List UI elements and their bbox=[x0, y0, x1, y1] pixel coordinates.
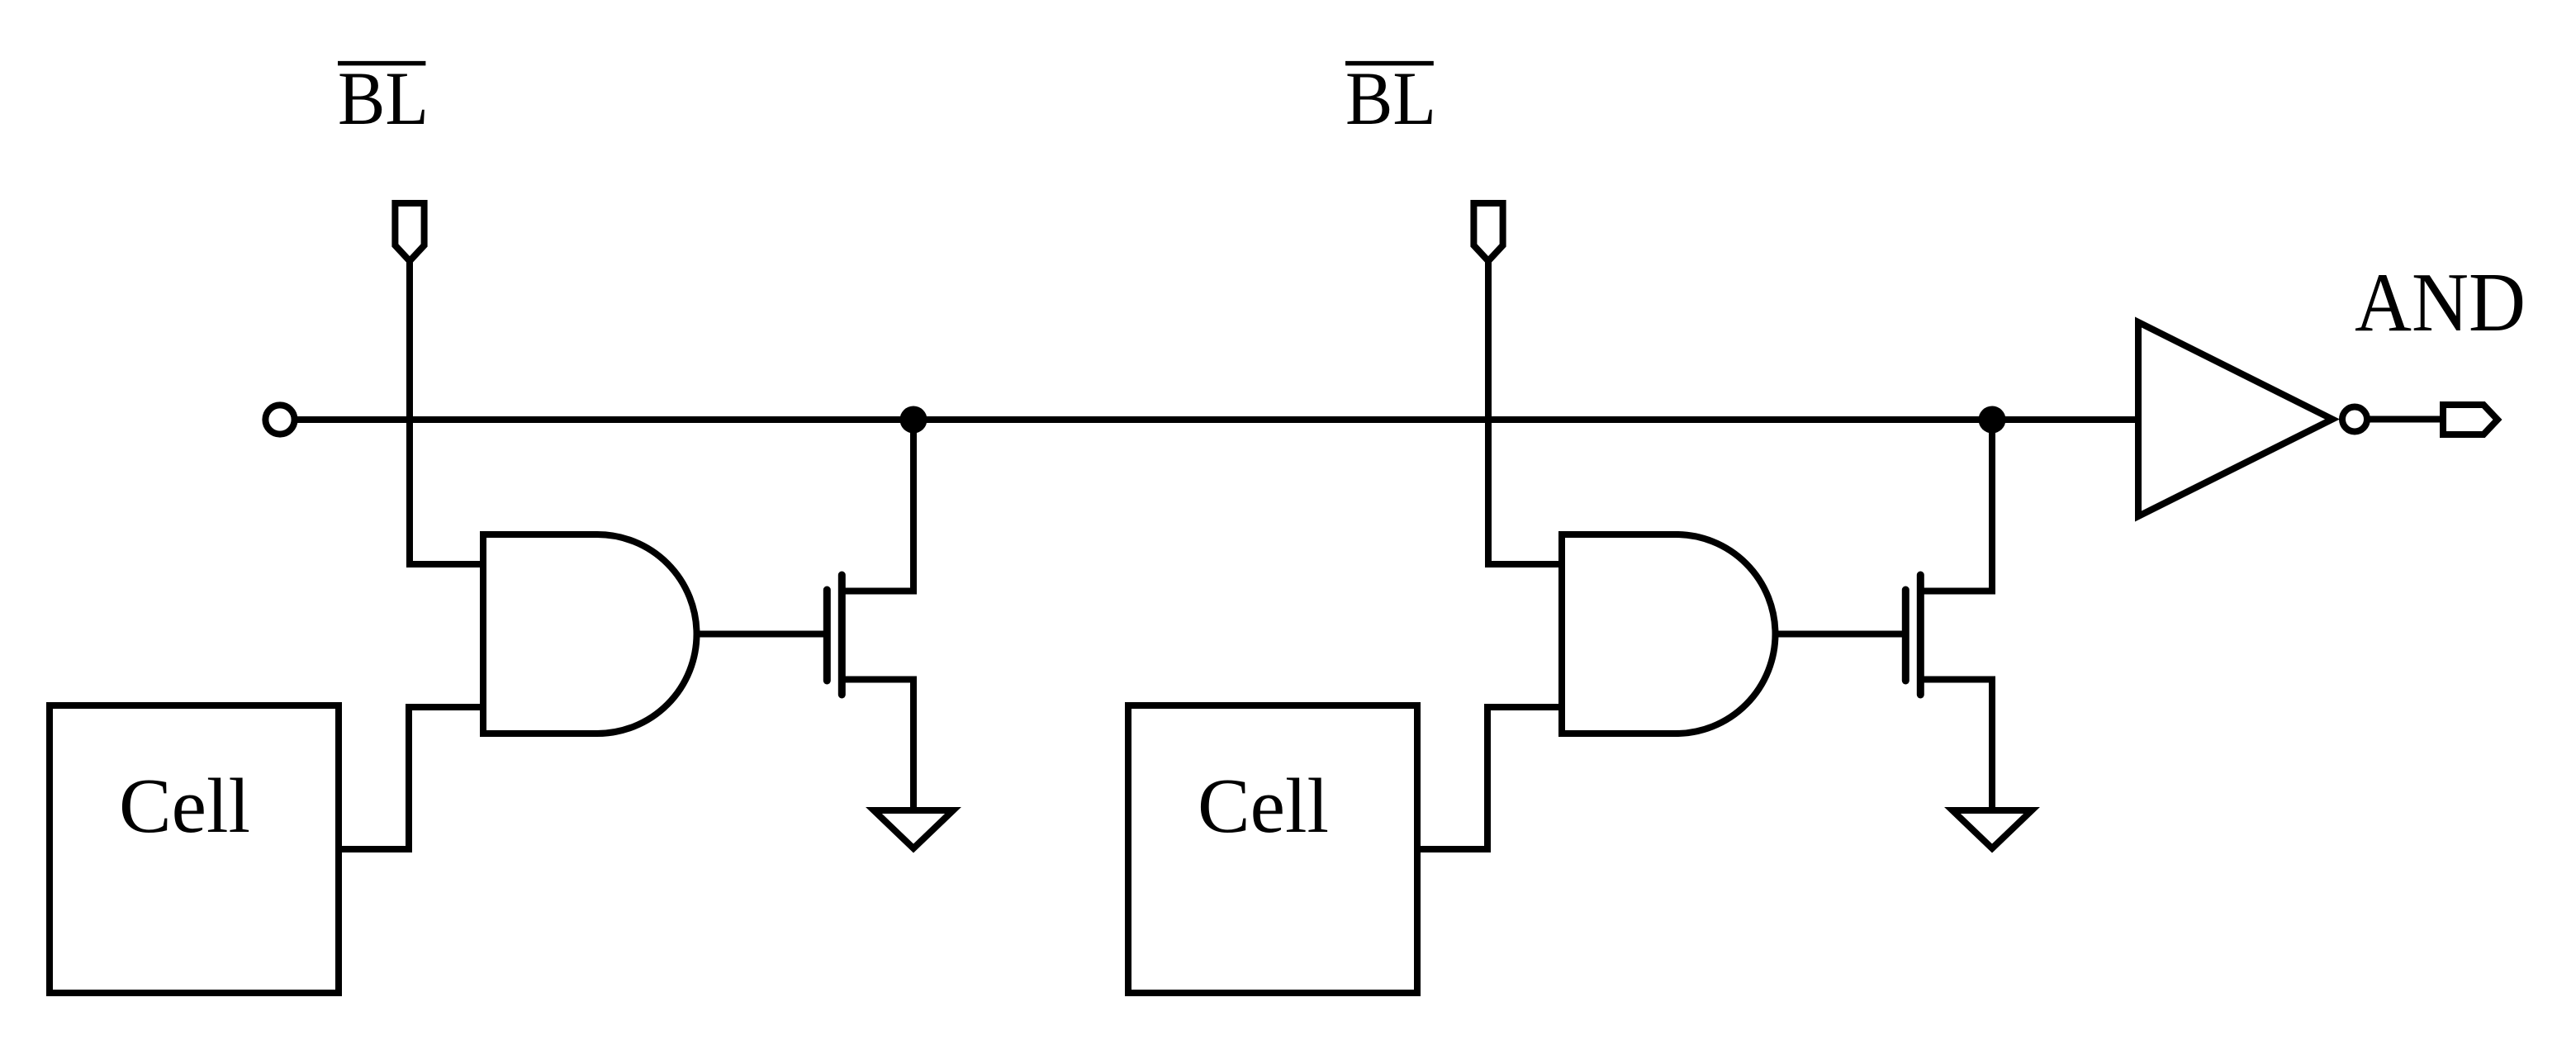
wire Q1 source to ground bbox=[842, 680, 913, 811]
svg-text:Cell: Cell bbox=[1198, 763, 1329, 849]
output pin terminal AND bbox=[2443, 405, 2498, 435]
ground GND2 bbox=[1952, 810, 2032, 848]
net label BL1 overbar bbox=[338, 61, 425, 66]
wire BL1 vertical + AND1 top input bbox=[410, 261, 483, 564]
wire AND2 output to Q2 gate bbox=[1776, 631, 1906, 638]
inverter U3 triangle bbox=[2138, 322, 2332, 516]
pin terminal BL2 bbox=[1473, 203, 1502, 261]
pin terminal BL1 bbox=[395, 203, 424, 261]
svg-text:BL: BL bbox=[338, 56, 429, 140]
wire BL2 vertical + AND2 top input bbox=[1488, 261, 1562, 564]
transistor Q1 gate bar bbox=[823, 590, 831, 681]
AND gate U2 bbox=[1562, 534, 1776, 734]
svg-text:BL: BL bbox=[1345, 56, 1436, 140]
transistor Q2 channel bar bbox=[1917, 575, 1924, 695]
Cell2 box bbox=[1128, 705, 1417, 993]
wire Cell2 output to AND2 bottom input bbox=[1417, 707, 1562, 849]
wire Q1 drain to match line bbox=[842, 420, 913, 591]
wire Q2 source to ground bbox=[1920, 680, 1992, 811]
transistor Q1 channel bar bbox=[838, 575, 846, 695]
net label BL2 overbar bbox=[1345, 61, 1434, 66]
wire Q2 drain to match line bbox=[1920, 420, 1992, 591]
input terminal circle (match line left end) bbox=[265, 405, 294, 434]
wire inverter output bbox=[2367, 416, 2443, 423]
wire AND1 output to Q1 gate bbox=[697, 631, 828, 638]
junction dot node Q1 drain bbox=[900, 406, 927, 434]
match line (horizontal net) bbox=[280, 416, 2138, 423]
svg-text:Cell: Cell bbox=[119, 763, 250, 849]
AND gate U1 bbox=[483, 534, 697, 734]
ground GND1 bbox=[874, 810, 953, 848]
junction dot node Q2 drain bbox=[1979, 406, 2006, 434]
transistor Q2 gate bar bbox=[1902, 590, 1909, 681]
wire Cell1 output to AND1 bottom input bbox=[339, 707, 483, 849]
inverter U3 output bubble bbox=[2342, 407, 2367, 432]
svg-text:AND: AND bbox=[2355, 256, 2526, 349]
Cell1 box bbox=[50, 705, 339, 993]
